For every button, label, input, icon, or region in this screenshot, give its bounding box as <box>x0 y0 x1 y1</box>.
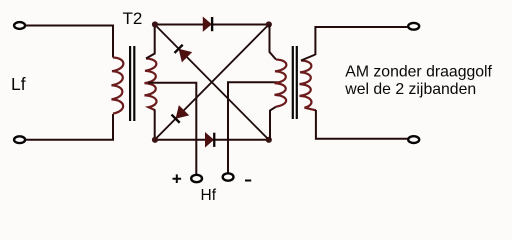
ring bottom edge wire <box>155 139 269 141</box>
terminal J4 (output bottom) <box>408 136 419 143</box>
svg-text:Hf: Hf <box>201 187 217 204</box>
terminal J1 (Lf top) <box>14 22 25 29</box>
wire Lf bottom to T2 primary <box>26 114 113 140</box>
wire T2 center tap to + terminal <box>148 83 196 175</box>
label - <box>245 180 251 182</box>
wire secondary top to output + jog <box>301 27 408 61</box>
svg-text:wel de 2 zijbanden: wel de 2 zijbanden <box>344 81 476 98</box>
wire secondary bottom to output <box>316 110 408 139</box>
transformer T3 primary winding <box>275 60 287 107</box>
transformer T2 primary winding <box>112 58 124 114</box>
svg-text:AM zonder draaggolf: AM zonder draaggolf <box>345 64 492 81</box>
transformer T3 secondary winding <box>300 61 316 111</box>
diode D4 (bottom edge) <box>206 133 216 147</box>
transformer T3 core <box>292 46 294 119</box>
node C (ring top-right junction dot) <box>266 21 272 27</box>
terminal J5 (+ carrier) <box>191 175 202 182</box>
diode D2 (diagonal A, points up-left) <box>173 43 191 61</box>
wire right transformer primary to ring corner D <box>270 107 276 140</box>
diagonal wire B (bottom-left to top-right) <box>155 25 269 140</box>
node B (ring bottom-left junction dot) <box>152 137 158 143</box>
terminal J3 (output top) <box>408 23 419 30</box>
diagonal wire A (top-left to bottom-right) <box>155 25 269 140</box>
diode D3 (diagonal B, points down-left) <box>170 106 188 124</box>
transformer T2 core <box>129 46 131 121</box>
node A (ring top-left junction dot) <box>152 21 158 27</box>
diode D1 (top edge) <box>203 17 213 31</box>
terminal J2 (Lf bottom) <box>14 136 25 143</box>
node D (ring bottom-right junction dot) <box>266 137 272 143</box>
wire ring corner C to right transformer primary <box>270 25 277 60</box>
label + <box>173 174 182 183</box>
ring top edge wire <box>155 24 269 26</box>
transformer T2 secondary winding <box>145 59 157 111</box>
svg-text:Lf: Lf <box>11 74 26 94</box>
terminal J6 (- carrier) <box>223 173 234 180</box>
wire T2 secondary top to ring corner A <box>146 25 155 59</box>
wire Lf top to T2 primary <box>26 26 113 58</box>
svg-text:T2: T2 <box>123 9 143 28</box>
wire right transformer center tap to - terminal <box>228 82 278 173</box>
wire T2 secondary bottom to ring corner B <box>154 110 156 140</box>
